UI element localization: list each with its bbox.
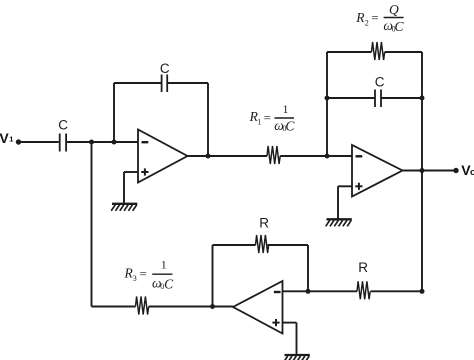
wire U2 inverting node up to feedback network — [326, 52, 328, 156]
svg-text:3: 3 — [133, 274, 137, 283]
svg-text:2: 2 — [365, 18, 369, 27]
op-amp U2 — [352, 145, 403, 197]
label C U2 feedback capacitor — [375, 75, 385, 90]
op-amp U3 (points left) — [233, 281, 283, 334]
wire feedback R row left segment and down to output — [213, 245, 256, 307]
wire left to resistor R2 — [327, 51, 372, 53]
svg-text:R: R — [259, 216, 269, 231]
ground (U1) — [111, 204, 137, 211]
svg-text:V: V — [0, 130, 9, 146]
svg-text:1: 1 — [161, 260, 167, 272]
svg-text:C: C — [160, 61, 170, 76]
svg-text:C: C — [58, 118, 68, 133]
label R U3 feedback resistor — [259, 216, 269, 231]
node U2 inverting junction — [325, 154, 330, 159]
wire U2 output to Vo terminal — [403, 170, 457, 172]
label equation R2 = Q/(omega0 C) — [355, 2, 404, 34]
svg-text:o: o — [470, 167, 474, 178]
node right vertical bottom junction — [420, 289, 425, 294]
wire node A down to bottom row — [91, 142, 93, 307]
label equation R1 = 1/(omega0 C) — [249, 104, 296, 134]
svg-text:C: C — [164, 276, 174, 291]
node A junction (input row to R3 branch) — [89, 140, 94, 145]
svg-text:C: C — [375, 75, 385, 90]
node V1 input terminal — [16, 139, 21, 144]
wire U3 inverting node up to feedback R — [307, 245, 309, 291]
ground (U3) — [284, 355, 310, 360]
svg-text:R: R — [355, 10, 365, 25]
wire U3 input row from right vertical to resistor R — [371, 290, 422, 292]
label C U1 feedback capacitor — [160, 61, 170, 76]
wire R2 to right vertical — [385, 51, 422, 53]
label equation R3 = 1/(omega0 C) — [124, 260, 175, 292]
wire U2 non-inverting input to ground — [338, 186, 352, 219]
ground (U2) — [326, 219, 352, 226]
capacitor C (U2 feedback) — [375, 90, 381, 108]
svg-text:=: = — [264, 110, 271, 125]
resistor R3 — [136, 297, 149, 315]
op-amp U1 — [138, 130, 188, 183]
wire feedback right vertical down to U1 output node — [207, 83, 209, 156]
wire C feedback row left segment — [327, 97, 375, 99]
label V1 input — [0, 130, 13, 146]
wire R1 to op-amp U2 inverting input — [280, 155, 352, 157]
wire V1 to capacitor C input — [21, 141, 59, 143]
resistor R1 — [267, 146, 280, 164]
node U2 output junction — [420, 168, 425, 173]
wire feedback capacitor to U1 output branch — [168, 82, 208, 84]
wire node B up to feedback capacitor — [113, 83, 115, 142]
wire U1 output to R1 — [188, 155, 268, 157]
svg-text:=: = — [140, 266, 147, 281]
wire feedback R row right segment — [268, 244, 309, 246]
node B junction (input row to feedback C) — [112, 140, 117, 145]
svg-text:Q: Q — [389, 2, 399, 17]
svg-text:1: 1 — [257, 118, 261, 127]
wire bottom row R3 to U3 output — [92, 306, 136, 308]
wire U3 non-inverting input to ground — [283, 323, 297, 355]
resistor R (U3 input) — [357, 281, 370, 299]
label R U3 input resistor — [358, 260, 368, 275]
svg-text:C: C — [395, 19, 405, 34]
wire R3 to U3 output apex — [149, 306, 233, 308]
wire feedback top left to capacitor C1fb — [114, 82, 161, 84]
wire right vertical (U2 output up through C row to R2 row) — [421, 52, 423, 291]
svg-text:1: 1 — [283, 104, 289, 116]
svg-text:1: 1 — [9, 135, 13, 144]
label Vo output — [461, 162, 474, 178]
resistor R (U3 feedback) — [256, 235, 269, 253]
capacitor C (U1 feedback) — [162, 75, 168, 93]
node U3 output junction — [210, 304, 215, 309]
svg-text:R: R — [358, 260, 368, 275]
node C feedback left junction — [325, 96, 330, 101]
wire capacitor C to op-amp U1 inverting input — [67, 141, 138, 143]
wire C feedback row right segment — [382, 97, 423, 99]
node Vo terminal — [453, 168, 458, 173]
wire R to U3 inverting input — [283, 290, 358, 292]
label C input capacitor — [58, 118, 68, 133]
svg-text:=: = — [371, 10, 378, 25]
svg-text:C: C — [285, 119, 295, 134]
resistor R2 — [372, 42, 385, 60]
capacitor C (input, series) — [60, 134, 66, 152]
wire U1 non-inverting input to ground — [124, 172, 138, 204]
node U1 output junction — [206, 154, 211, 159]
node C feedback right junction — [420, 96, 425, 101]
node U3 inverting junction — [306, 289, 311, 294]
